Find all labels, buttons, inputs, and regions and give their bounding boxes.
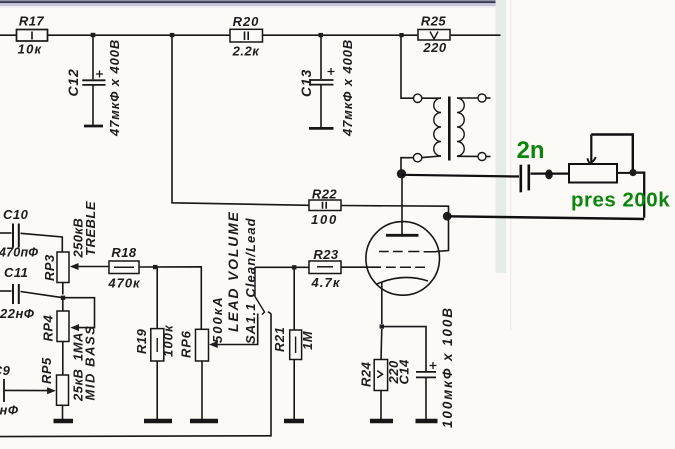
svg-text:RP3: RP3 (42, 254, 57, 281)
svg-text:4.7к: 4.7к (310, 275, 340, 290)
svg-text:R17: R17 (19, 14, 45, 29)
svg-text:RP6: RP6 (179, 330, 194, 358)
svg-text:220: 220 (422, 40, 446, 55)
svg-text:1M: 1M (300, 330, 315, 350)
svg-text:R19: R19 (134, 328, 149, 354)
svg-text:R21: R21 (272, 327, 287, 352)
svg-text:100мкФ х 100В: 100мкФ х 100В (440, 306, 455, 428)
svg-text:470к: 470к (107, 276, 141, 291)
svg-text:2.2к: 2.2к (232, 44, 261, 59)
svg-text:25кВ: 25кВ (71, 369, 86, 402)
svg-text:SA1.1 Clean/Lead: SA1.1 Clean/Lead (243, 217, 258, 344)
svg-text:RP4: RP4 (41, 314, 56, 341)
svg-text:R25: R25 (421, 14, 447, 29)
svg-text:pres 200k: pres 200k (571, 189, 670, 212)
svg-text:C12: C12 (65, 68, 81, 96)
svg-text:C10: C10 (3, 207, 29, 222)
svg-text:R20: R20 (233, 14, 260, 29)
svg-text:RP5: RP5 (39, 357, 54, 384)
svg-text:500кА: 500кА (210, 295, 225, 343)
svg-text:47мкФ х 400В: 47мкФ х 400В (340, 39, 355, 137)
svg-text:R22: R22 (312, 187, 338, 202)
svg-text:C14: C14 (397, 359, 412, 385)
svg-text:R24: R24 (358, 361, 373, 387)
svg-text:10к: 10к (18, 42, 43, 57)
svg-text:C11: C11 (4, 265, 28, 280)
svg-text:R18: R18 (111, 245, 137, 260)
svg-text:LEAD VOLUME: LEAD VOLUME (225, 210, 241, 332)
svg-text:22нФ: 22нФ (0, 306, 35, 321)
svg-text:C13: C13 (298, 69, 314, 97)
svg-text:470пФ: 470пФ (0, 246, 38, 260)
svg-text:100к: 100к (161, 324, 176, 357)
svg-text:R23: R23 (313, 247, 339, 262)
svg-text:47мкФ х 400В: 47мкФ х 400В (107, 39, 122, 137)
svg-text:100: 100 (311, 212, 338, 227)
svg-text:22нФ: 22нФ (0, 403, 19, 418)
svg-text:C9: C9 (0, 363, 11, 378)
svg-text:TREBLE: TREBLE (83, 201, 98, 256)
svg-text:2n: 2n (517, 137, 545, 164)
